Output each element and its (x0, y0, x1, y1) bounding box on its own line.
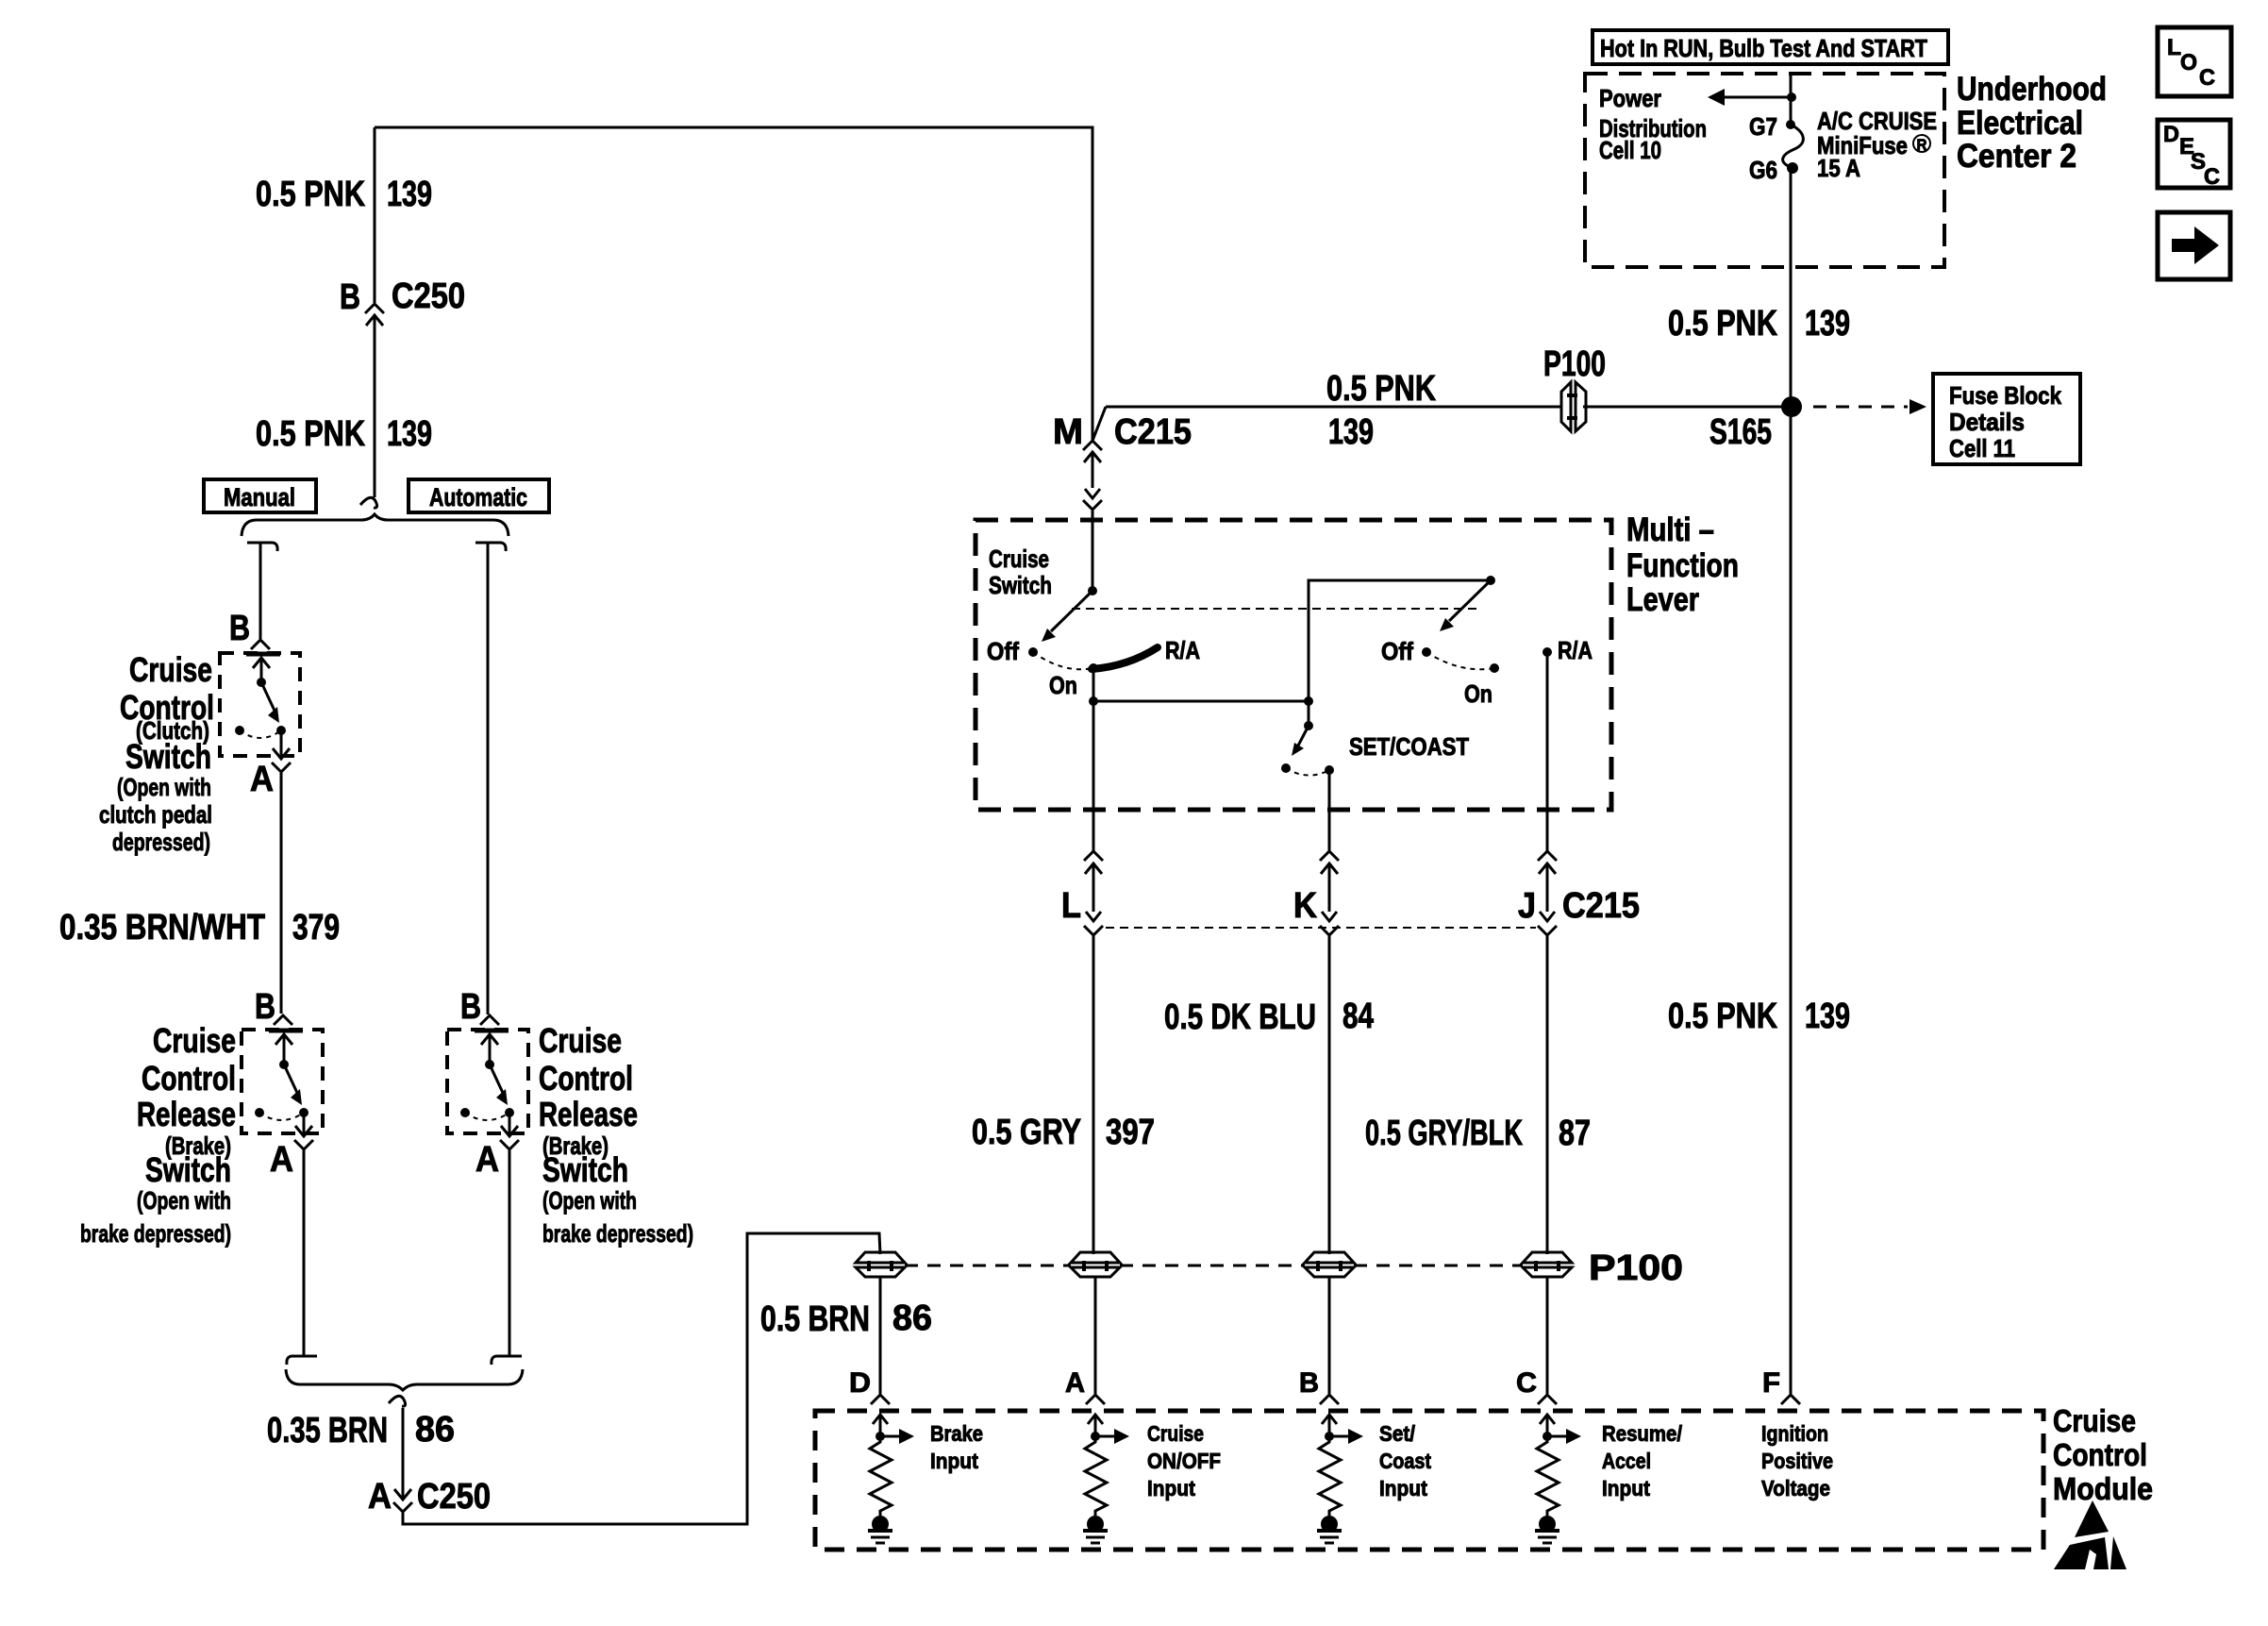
module pin F ignition voltage (1781, 1395, 1800, 1404)
mechanical link dashed line (1072, 608, 1476, 610)
svg-text:Accel: Accel (1602, 1449, 1651, 1473)
clutch switch contact dot right (276, 726, 286, 735)
connector chevron below clutch switch (272, 763, 291, 772)
dashed arrow to fuse block details (1813, 406, 1908, 409)
svg-text:P100: P100 (1543, 344, 1606, 384)
wire junction up and to resume switch (1309, 580, 1491, 701)
svg-text:R/A: R/A (1165, 636, 1200, 664)
svg-text:0.5 PNK: 0.5 PNK (256, 414, 365, 454)
svg-text:Set/: Set/ (1379, 1421, 1416, 1446)
svg-text:Off: Off (1381, 637, 1413, 665)
svg-text:Cruise: Cruise (1147, 1421, 1204, 1446)
svg-text:M: M (1053, 412, 1083, 452)
svg-text:Module: Module (2053, 1471, 2153, 1506)
wire manual brake switch to brace (303, 1150, 306, 1355)
svg-text:On: On (1464, 679, 1493, 708)
svg-text:L: L (1061, 886, 1081, 926)
svg-text:84: 84 (1342, 997, 1374, 1036)
wire On junction down to C215 pin L (1092, 701, 1095, 851)
svg-text:0.5 GRY: 0.5 GRY (972, 1113, 1081, 1152)
svg-text:C250: C250 (417, 1477, 491, 1517)
wire C215 M to S165 horizontal (1092, 407, 1562, 441)
svg-text:On: On (1049, 671, 1077, 699)
svg-text:SET/COAST: SET/COAST (1349, 732, 1469, 761)
cruise on/off switch arm (1051, 591, 1092, 631)
svg-text:0.5 GRY/BLK: 0.5 GRY/BLK (1365, 1114, 1523, 1153)
clutch switch input arrow (260, 658, 263, 682)
svg-text:K: K (1293, 886, 1317, 926)
connector chevron above automatic brake switch (480, 1015, 499, 1025)
svg-text:Switch: Switch (989, 571, 1052, 599)
cruise control release switch (automatic) (447, 1030, 528, 1133)
svg-text:87: 87 (1559, 1114, 1591, 1153)
clutch switch contact dot left (235, 726, 244, 735)
svg-text:Manual: Manual (224, 483, 295, 511)
junction dot at On wire (1089, 696, 1098, 706)
svg-text:B: B (460, 987, 481, 1027)
module pin C resume/accel input (1538, 1395, 1557, 1404)
wire Automatic branch (487, 544, 490, 1014)
svg-text:Resume/: Resume/ (1602, 1421, 1683, 1446)
grommet P100 on feed wire (1561, 382, 1586, 431)
fuse A/C CRUISE MiniFuse element (1783, 125, 1804, 168)
connector C215 pin K symbol (1320, 851, 1339, 861)
junction dot hot feed (1787, 92, 1796, 102)
svg-text:C250: C250 (392, 277, 465, 316)
svg-text:0.5 PNK: 0.5 PNK (1668, 997, 1777, 1036)
connector C215 dashed tie line (1106, 927, 1536, 929)
svg-text:Electrical: Electrical (1957, 105, 2083, 142)
cruise switch travel arc (1033, 652, 1093, 669)
svg-text:Off: Off (987, 637, 1019, 665)
svg-text:Input: Input (1147, 1476, 1195, 1500)
svg-text:139: 139 (1328, 412, 1374, 452)
wire automatic brake switch to brace (509, 1150, 511, 1355)
cruise control release switch (manual) (242, 1030, 323, 1133)
svg-text:C215: C215 (1114, 412, 1192, 452)
wire S165 down to module pin F (1790, 407, 1793, 1394)
ESD sensitivity symbol (2054, 1500, 2126, 1569)
wire fuse to S165 (1790, 168, 1793, 407)
underhood electrical center dashed box (1585, 74, 1944, 267)
connector C215 pin L symbol (1084, 851, 1103, 861)
wire break hook above brace (360, 497, 377, 508)
cruise switch Off contact dot (1028, 647, 1038, 657)
wire brace to C250 pin A (402, 1408, 405, 1473)
svg-text:ON/OFF: ON/OFF (1147, 1449, 1221, 1473)
set/coast right contact dot (1325, 765, 1334, 775)
svg-text:A: A (475, 1140, 499, 1180)
svg-text:Input: Input (1602, 1476, 1650, 1500)
svg-text:A: A (250, 760, 274, 799)
svg-text:Hot In RUN, Bulb Test And STAR: Hot In RUN, Bulb Test And START (1600, 34, 1927, 62)
svg-text:(Open with: (Open with (137, 1186, 231, 1215)
svg-text:(Open with: (Open with (117, 773, 211, 801)
set/coast switch feed dot (1304, 721, 1313, 730)
svg-text:C215: C215 (1562, 886, 1640, 926)
svg-text:Underhood: Underhood (1957, 71, 2107, 108)
callout box Hot In RUN Bulb Test And START (1593, 30, 1948, 64)
connector chevron above clutch switch (251, 640, 270, 649)
svg-text:brake depressed): brake depressed) (542, 1219, 693, 1248)
module pin B set/coast input (1320, 1395, 1339, 1404)
svg-text:C: C (1516, 1367, 1537, 1399)
grommet P100 on set/coast wire (1305, 1252, 1354, 1263)
brace splitting Manual / Automatic (242, 514, 509, 536)
svg-text:Cruise: Cruise (2053, 1403, 2136, 1438)
wire 139 top horizontal run (375, 127, 1092, 441)
svg-text:0.35 BRN: 0.35 BRN (267, 1411, 388, 1450)
svg-text:A: A (270, 1140, 293, 1180)
svg-text:F: F (1762, 1367, 1780, 1399)
svg-text:Control: Control (142, 1059, 236, 1098)
cruise control module dashed box (815, 1411, 2043, 1550)
svg-text:139: 139 (1805, 304, 1850, 344)
svg-text:139: 139 (387, 414, 432, 454)
resume switch R/A contact dot (1543, 647, 1552, 657)
svg-text:D: D (849, 1367, 871, 1399)
module pin D brake input (871, 1395, 890, 1404)
svg-text:Input: Input (930, 1449, 978, 1473)
svg-text:O: O (2180, 50, 2197, 75)
wire R/A contact down to C215 pin J (1546, 652, 1549, 851)
wire 139 upper left vertical (374, 127, 376, 303)
svg-text:0.5 BRN: 0.5 BRN (760, 1299, 870, 1339)
cruise control clutch switch box (220, 653, 300, 756)
clutch switch output arrow (280, 730, 283, 759)
terminal stub Manual branch (247, 543, 277, 551)
callout box Fuse Block Details Cell 11 (1933, 374, 2080, 464)
svg-text:Automatic: Automatic (429, 483, 527, 511)
splice S165 dot (1781, 396, 1802, 417)
svg-text:brake depressed): brake depressed) (80, 1219, 231, 1248)
svg-text:Details: Details (1949, 408, 2025, 436)
wire C215 into lever box (1092, 511, 1094, 591)
connector C215 pin M symbol (1083, 441, 1102, 450)
grommet P100 on brake input wire (856, 1252, 905, 1263)
svg-text:Lever: Lever (1626, 581, 1699, 618)
svg-text:0.5 DK BLU: 0.5 DK BLU (1164, 997, 1316, 1037)
svg-text:Voltage: Voltage (1761, 1476, 1830, 1500)
connector C250 pin A symbol (402, 1473, 405, 1500)
svg-text:Fuse Block: Fuse Block (1949, 381, 2061, 410)
svg-text:depressed): depressed) (112, 828, 210, 856)
svg-text:Control: Control (539, 1059, 633, 1098)
svg-text:0.35 BRN/WHT: 0.35 BRN/WHT (59, 908, 265, 947)
svg-text:Coast: Coast (1379, 1449, 1431, 1473)
wire hot feed into fuse (1790, 74, 1793, 125)
svg-text:Release: Release (539, 1095, 638, 1133)
svg-text:86: 86 (415, 1410, 455, 1450)
svg-text:0.5 PNK: 0.5 PNK (1326, 369, 1436, 409)
wire Manual branch upper (259, 544, 262, 639)
svg-text:clutch pedal: clutch pedal (99, 800, 212, 829)
svg-text:Cruise: Cruise (539, 1021, 622, 1060)
icon box arrow (2158, 212, 2230, 279)
connector C215 pin J symbol (1538, 851, 1557, 861)
resume switch travel arc (1426, 652, 1494, 669)
cruise switch On contact dot (1089, 663, 1098, 673)
svg-text:R/A: R/A (1558, 636, 1593, 664)
callout box Manual (204, 479, 316, 512)
svg-text:Cell 10: Cell 10 (1599, 136, 1661, 164)
svg-text:D: D (2163, 122, 2179, 147)
resume switch arm (1449, 580, 1491, 621)
svg-text:A: A (1065, 1367, 1085, 1399)
wire set/coast to C215 pin K (1328, 770, 1331, 851)
dashed firewall line P100 (905, 1265, 1071, 1267)
module pin A cruise on/off input (1086, 1395, 1105, 1404)
svg-text:86: 86 (892, 1299, 932, 1338)
multi-function lever dashed box (976, 520, 1611, 810)
svg-text:Center 2: Center 2 (1957, 138, 2076, 175)
grommet P100 on cruise on/off wire (1071, 1252, 1120, 1263)
svg-text:0.5 PNK: 0.5 PNK (1668, 304, 1777, 344)
terminal dot G7 (1786, 120, 1795, 129)
svg-text:G6: G6 (1749, 156, 1777, 184)
set/coast switch arm (1298, 726, 1309, 746)
callout box Automatic (409, 479, 549, 512)
svg-text:B: B (1299, 1367, 1319, 1399)
icon box LOC (2158, 27, 2231, 96)
svg-text:Switch: Switch (542, 1150, 628, 1189)
svg-text:P100: P100 (1589, 1249, 1683, 1288)
svg-text:S165: S165 (1709, 412, 1772, 452)
svg-text:(Open with: (Open with (542, 1186, 637, 1215)
svg-text:Multi –: Multi – (1626, 511, 1714, 548)
svg-text:Brake: Brake (930, 1421, 983, 1446)
svg-text:G7: G7 (1749, 112, 1777, 141)
terminal stub Automatic branch (475, 543, 506, 551)
svg-text:Switch: Switch (145, 1150, 231, 1189)
wire across lever box (1093, 700, 1309, 703)
wire break hook below brace (389, 1396, 406, 1406)
icon box DESC (2158, 120, 2230, 188)
junction dot at set/coast branch (1304, 696, 1313, 706)
svg-text:379: 379 (292, 908, 340, 947)
svg-text:Input: Input (1379, 1476, 1427, 1500)
arrow to power distribution (1721, 96, 1792, 99)
svg-text:139: 139 (1805, 997, 1850, 1036)
resume switch pivot dot (1486, 576, 1495, 585)
resume switch On contact dot (1490, 663, 1499, 673)
wire C250 to module pin D (403, 1233, 880, 1524)
resume switch Off contact dot (1422, 647, 1431, 657)
svg-text:15 A: 15 A (1817, 154, 1860, 182)
wire clutch switch to brake switch (280, 773, 283, 1014)
terminal stub above brace left (287, 1356, 317, 1365)
clutch switch arm (261, 682, 275, 711)
svg-text:R: R (1917, 136, 1927, 154)
cruise on/off switch pivot dot (1088, 586, 1097, 595)
connector C250 pin B symbol (365, 304, 384, 313)
svg-text:C: C (2199, 65, 2215, 91)
svg-text:Release: Release (137, 1095, 236, 1133)
svg-text:Ignition: Ignition (1761, 1421, 1828, 1446)
svg-text:139: 139 (387, 175, 432, 214)
svg-text:397: 397 (1106, 1113, 1155, 1152)
svg-text:B: B (229, 609, 250, 648)
svg-text:A: A (368, 1477, 392, 1517)
svg-text:B: B (255, 987, 275, 1027)
svg-text:Cruise: Cruise (129, 650, 212, 689)
clutch switch dashed travel arc (240, 730, 281, 738)
svg-text:C: C (2204, 164, 2220, 190)
brace joining brake switch outputs (286, 1369, 523, 1390)
terminal stub above brace right (492, 1356, 522, 1365)
svg-text:Positive: Positive (1761, 1449, 1833, 1473)
svg-text:0.5 PNK: 0.5 PNK (256, 175, 365, 214)
svg-text:B: B (340, 277, 360, 317)
clutch switch pivot dot (257, 678, 266, 687)
svg-text:Cruise: Cruise (989, 545, 1049, 573)
svg-text:Function: Function (1626, 547, 1739, 584)
terminal dot G6 (1787, 162, 1798, 174)
clutch switch fixed contact bar (246, 652, 280, 657)
set/coast travel arc (1286, 768, 1329, 776)
set/coast left contact dot (1281, 763, 1291, 773)
svg-text:Cruise: Cruise (153, 1021, 236, 1060)
svg-text:Control: Control (2053, 1437, 2147, 1472)
svg-text:J: J (1518, 886, 1536, 926)
svg-text:Switch: Switch (125, 737, 211, 776)
svg-text:Power: Power (1599, 84, 1661, 112)
connector chevron above manual brake switch (274, 1015, 292, 1025)
grommet P100 on resume wire (1523, 1252, 1572, 1263)
cruise switch R/A wiper thick arc (1092, 647, 1158, 669)
svg-text:Cell 11: Cell 11 (1949, 434, 2015, 462)
wire On contact to junction (1092, 668, 1095, 701)
svg-text:L: L (2167, 35, 2181, 60)
